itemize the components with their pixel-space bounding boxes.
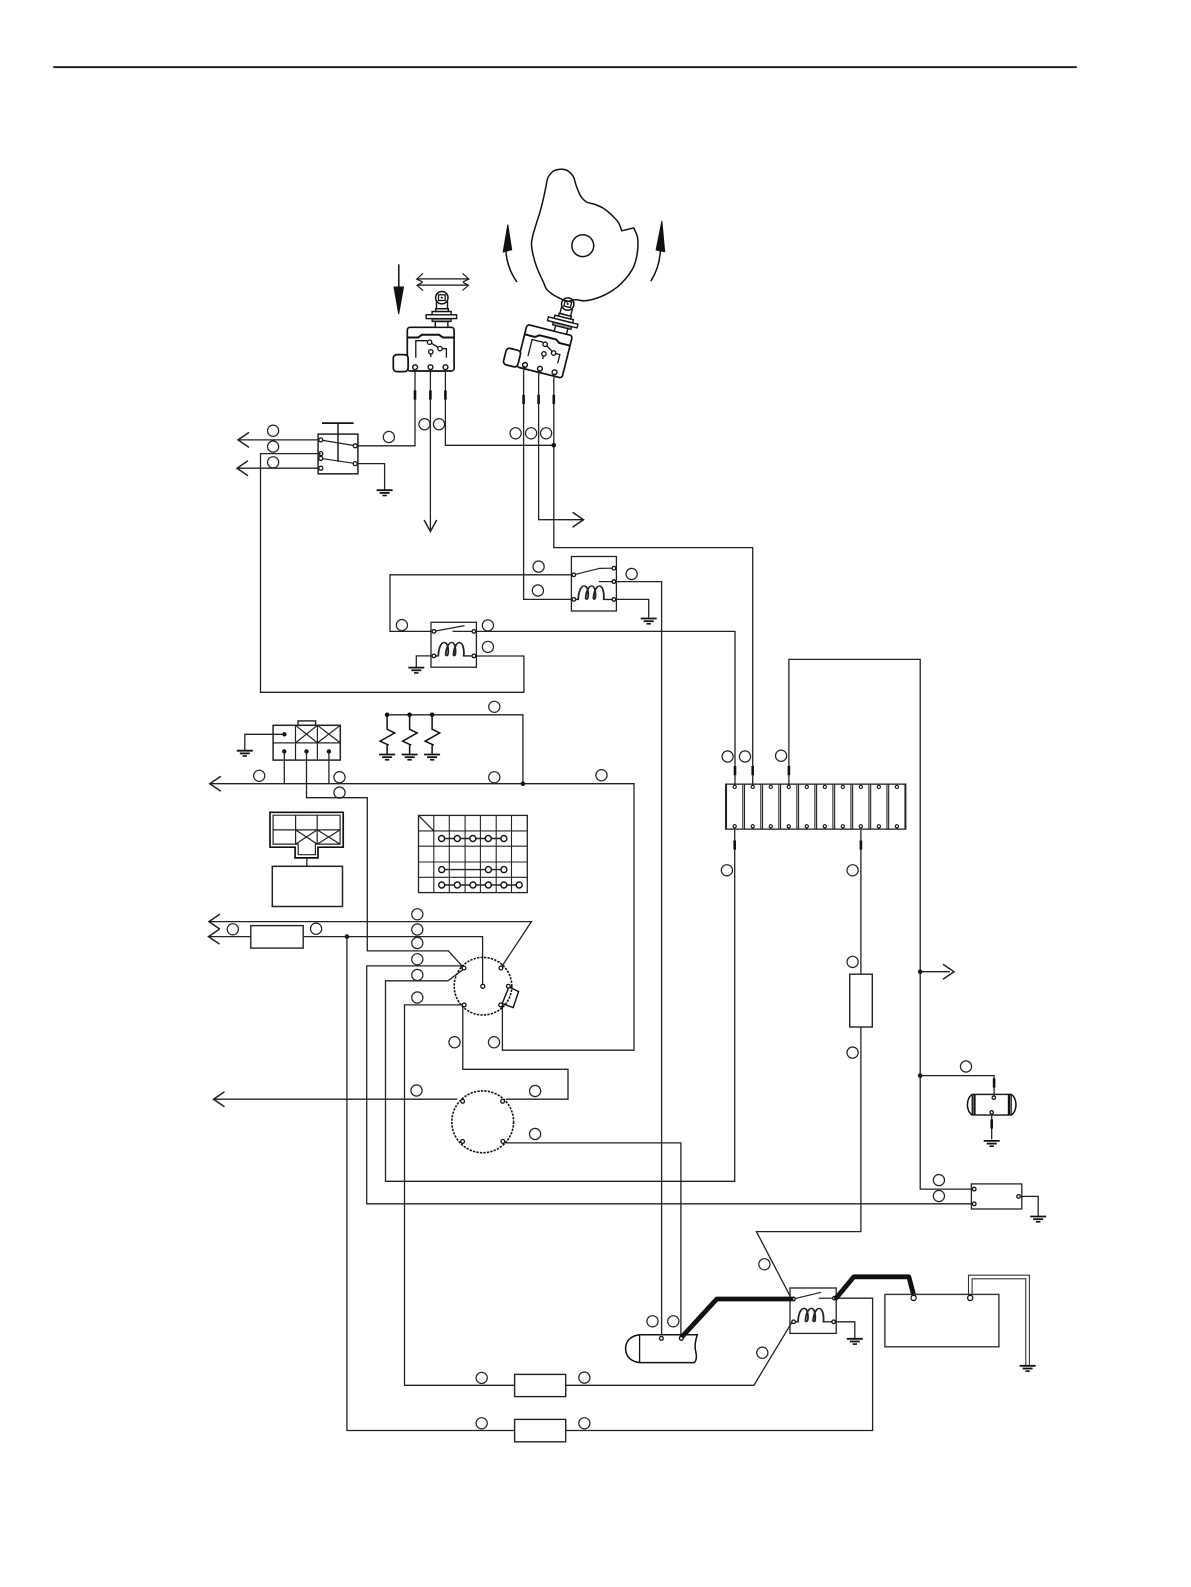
callout circle [412, 909, 423, 920]
junction node (charge line tap) [918, 969, 923, 974]
callout circle [847, 956, 858, 967]
callout circle [433, 419, 444, 430]
callout circle [579, 1418, 590, 1429]
wire: key switch L terminal to fuse F1 and relay K3 coil [405, 1005, 792, 1385]
harness connector J2 [270, 812, 343, 858]
arrowhead (left) [214, 1092, 225, 1107]
wire color band [751, 766, 754, 775]
wire: K3 coil to ground [835, 1322, 854, 1338]
callout circle [579, 1372, 590, 1383]
ground (relay K3) [847, 1339, 863, 1344]
wire color band [522, 395, 525, 404]
wire: J1 pin A to main bus [283, 751, 285, 783]
relay K1 (interlock relay) [571, 557, 616, 612]
wire: harness arrow to S3 pin L4 [237, 467, 319, 469]
callout circle [227, 924, 238, 935]
wire: fuse F3 feed (arrow) to key switch center terminal [209, 937, 483, 985]
junction node (fuel pump tap) [918, 1073, 923, 1078]
callout circle [533, 561, 544, 572]
wire: K2 contact (right-top) to terminal strip TB1 pin 1 [476, 631, 735, 785]
fuse F1 [515, 1374, 566, 1396]
battery ground cable (double line) to ground [969, 1275, 1030, 1365]
wire color band [993, 1078, 996, 1087]
ground (relay K2) [408, 668, 424, 673]
arrowhead (right) [573, 512, 584, 527]
callout circle [489, 772, 500, 783]
control module (box) [272, 866, 342, 906]
ground (module) [1030, 1217, 1046, 1222]
battery cable (K3 to battery +), heavy gauge [836, 1277, 913, 1298]
wire: S2 terminal 1 to relay K1 coil (left-bottom pin) [524, 366, 572, 600]
wire: module to ground [1020, 1196, 1038, 1216]
callout circle [476, 1418, 487, 1429]
callout circle [933, 1190, 944, 1201]
wire: ignition bus from plugs to main bus node [387, 715, 523, 784]
wire color band [990, 1119, 993, 1128]
wire: fuel pump to ground [991, 1114, 993, 1139]
wire: K2 coil left pin to ground [416, 656, 432, 667]
wire color band [414, 390, 417, 399]
arrowhead (left) [210, 776, 221, 791]
callout circle [412, 954, 423, 965]
wire: tap to fuel pump/solenoid [920, 1076, 994, 1096]
fuse F3 [251, 926, 303, 949]
ground (plug R3) [424, 755, 440, 760]
battery cable (starter to K3), heavy gauge [682, 1299, 792, 1337]
spark plug / ignition coil R3 [425, 715, 440, 754]
arrowhead (left) [209, 929, 220, 944]
cam lobe (engages S2) [531, 169, 637, 302]
limit switch S2 (cam operated, tilted) [503, 286, 584, 379]
callout circle [488, 1037, 499, 1048]
callout circle [847, 865, 858, 876]
wire color band [860, 841, 863, 850]
junction node (fuse feed tap) [345, 934, 350, 939]
accessory / time-delay module [971, 1184, 1021, 1209]
wire color band [553, 395, 556, 404]
wire: S3 pin L2 to relay K2 contact (right-bottom) [261, 454, 524, 693]
junction node on wire C [552, 443, 557, 448]
callout circle [268, 457, 279, 468]
wire: key switch terminal B to accessory module (long run) [367, 966, 972, 1204]
wire: J1 pin to ground [245, 734, 285, 750]
ground (relay K1) [641, 619, 657, 624]
wire: S1 terminal 1 to seat switch S3 pin R1 [357, 370, 415, 446]
callout circle [960, 1061, 971, 1072]
wire: J1 pin C to main bus [328, 751, 330, 783]
callout circle [412, 969, 423, 980]
cam pivot hole [572, 235, 594, 257]
callout circle [412, 992, 423, 1003]
spark plug / ignition coil R1 [380, 715, 395, 754]
callout circle [396, 620, 407, 631]
callout circle [268, 441, 279, 452]
callout circle [482, 641, 493, 652]
callout circle [933, 1175, 944, 1186]
ground (plug R1) [379, 755, 395, 760]
spark plug / ignition coil R2 [403, 715, 418, 754]
wire: key switch L terminal to hour meter feed (harness arrow) [214, 1007, 569, 1100]
callout circle [532, 585, 543, 596]
starter relay / solenoid K3 [790, 1288, 836, 1333]
callout circle [759, 1259, 770, 1270]
callout circle [334, 772, 345, 783]
wire: relay K1 common to relay K2 common [390, 575, 572, 632]
arrowhead (down) [424, 520, 437, 532]
callout circle [412, 924, 423, 935]
wire: hour meter to starter terminal [505, 1143, 681, 1335]
key switch position chart (table) [419, 815, 528, 892]
callout circle [254, 770, 265, 781]
wire: J1 pin B to key switch terminal B [307, 751, 464, 967]
callout circle [311, 923, 322, 934]
battery BT1 [885, 1294, 999, 1346]
callout circle [596, 770, 607, 781]
callout circle [721, 865, 732, 876]
callout circle [419, 419, 430, 430]
callout circle [383, 431, 394, 442]
arrowhead (left) [237, 461, 248, 476]
starter motor M2 [626, 1335, 698, 1363]
arrowhead (right) [943, 964, 954, 979]
callout circle [449, 1037, 460, 1048]
wire color band [788, 766, 791, 775]
callout circle [482, 620, 493, 631]
wire: K1 coil right pin to ground [616, 599, 649, 618]
wire: S1 terminal 2 (goes to harness, open end arrow) [429, 370, 431, 532]
wire color band [444, 390, 447, 399]
wire: S1 terminal 3 to node on S2 wire C [445, 370, 553, 446]
callout circle [530, 1085, 541, 1096]
wire: S2 terminal 2 (to engine, right arrow) [539, 370, 584, 520]
wire: key switch terminal B to terminal strip TB1 pin1 (bottom) [386, 830, 735, 1181]
wire color band [734, 766, 737, 775]
callout circle [647, 1316, 658, 1327]
wire: TB1 pin 8 through resistor R4 to relay K3 contact [756, 830, 861, 1299]
arrowhead (left) [238, 432, 249, 447]
seat/PTO switch S3 [318, 423, 358, 474]
callout circle [541, 428, 552, 439]
hour meter M1 [452, 1091, 514, 1153]
callout circle [526, 428, 537, 439]
fuel pump / fuel solenoid [967, 1094, 1016, 1115]
relay K2 (PTO relay) [431, 622, 476, 667]
motion arrow (curved, right of cam) [651, 250, 661, 281]
callout circle [626, 568, 637, 579]
callout circle [334, 787, 345, 798]
fuse F2 [515, 1419, 566, 1441]
callout circle [722, 751, 733, 762]
motion arrow (curved, left of cam) [506, 251, 517, 282]
callout circle [530, 1128, 541, 1139]
callout circle [268, 425, 279, 436]
limit switch S1 (brake interlock, plunger type) [393, 292, 456, 372]
wire: fused feed (arrow) to key switch terminal M (via diagonal) [209, 922, 532, 967]
callout circle [412, 937, 423, 948]
callout circle [757, 1347, 768, 1358]
callout circle [489, 701, 500, 712]
wire: TB1 pin 4 to distribution node (right loop) [789, 659, 972, 1189]
wire: charge output arrow [920, 971, 950, 973]
arrowhead (left) [209, 914, 220, 929]
wire color band [733, 841, 736, 850]
motion arrow (horizontal double) at S1 [417, 278, 469, 280]
callout circle [847, 1047, 858, 1058]
callout circle [668, 1316, 679, 1327]
wire: K1 output (right-mid pin) to starter motor terminal [616, 582, 662, 1335]
ignition key switch S4 [454, 957, 518, 1015]
ground (seat switch) [377, 490, 393, 495]
wire: main bus (harness arrow) to key switch terminal S [210, 784, 634, 1050]
wire: S2 terminal 3 to terminal strip TB1 pin 2 [554, 374, 753, 786]
interlock connector J1 [273, 721, 340, 760]
wire: K3 contact to fuse F2 (to accessory circuit) [347, 937, 873, 1431]
terminal strip / connector block TB1 [726, 784, 906, 829]
ground (connector J1) [237, 751, 253, 756]
wire: harness arrow to S3 pin L1 [238, 439, 319, 441]
callout circle [510, 428, 521, 439]
wire color band [429, 390, 432, 399]
motion arrow (down) at S1 [398, 264, 400, 287]
wire: S3 pin R2 to ground [357, 464, 384, 490]
ground (battery) [1020, 1366, 1036, 1371]
callout circle [739, 751, 750, 762]
callout circle [776, 750, 787, 761]
callout circle [476, 1372, 487, 1383]
wire color band [537, 395, 540, 404]
wire: J2 to control module [306, 858, 308, 866]
junction node bus/ignition [521, 781, 526, 786]
callout circle [411, 1085, 422, 1096]
ground (fuel pump) [984, 1141, 1000, 1146]
ground (plug R2) [402, 755, 418, 760]
resistor R4 (in-line) [850, 974, 873, 1027]
